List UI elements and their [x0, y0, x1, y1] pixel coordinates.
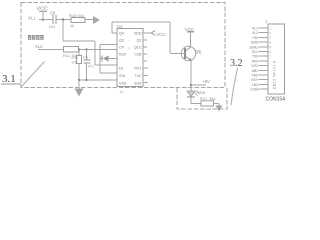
resistor R17: [200, 96, 217, 106]
svg-text:471: 471: [88, 65, 94, 69]
ground arrow (down): [75, 89, 84, 97]
svg-text:+5V: +5V: [202, 79, 210, 84]
svg-text:104: 104: [49, 24, 56, 29]
junction node emitter tap: [190, 84, 193, 87]
svg-text:511: 511: [210, 96, 217, 101]
wire ground rail into U2 pin y80: [80, 79, 118, 81]
svg-text:R12: R12: [72, 56, 79, 60]
svg-text:XL2: XL2: [252, 31, 258, 35]
svg-text:Q3: Q3: [119, 39, 124, 43]
svg-text:VO2: VO2: [251, 64, 258, 68]
wire top rail from U2 pin1: [112, 22, 170, 53]
junction node branch R12: [78, 48, 80, 50]
leader diagonal into box 3.1: [21, 62, 45, 88]
diode VD (to U2 pin y58.5): [100, 56, 117, 62]
svg-text:C8: C8: [83, 56, 88, 60]
svg-text:1u: 1u: [120, 90, 124, 94]
svg-text:3.2: 3.2: [230, 58, 243, 69]
connector XP1 body: [268, 24, 285, 94]
connector pin rows: [249, 27, 258, 92]
svg-text:XL2: XL2: [35, 44, 43, 49]
svg-text:AB1: AB1: [252, 69, 258, 73]
svg-text:TX0: TX0: [252, 55, 258, 59]
svg-text:+5V: +5V: [252, 36, 259, 40]
svg-text:COM: COM: [250, 88, 258, 92]
svg-text:TxC: TxC: [135, 74, 142, 78]
wire C6 to R10: [57, 19, 72, 21]
U2 left pin labels: [119, 32, 127, 86]
svg-text:SCL: SCL: [252, 50, 259, 54]
svg-text:LN2: LN2: [252, 83, 258, 87]
dashed block border 3.2: [177, 88, 227, 109]
svg-text:XL1: XL1: [252, 27, 258, 31]
wire horizontal y41: [63, 40, 95, 42]
connector pin wires: [259, 28, 269, 89]
wire into LED: [190, 87, 192, 91]
connector inner pin numbers: [270, 26, 272, 58]
wire emitter down: [190, 61, 192, 88]
leader line from 3.2: [231, 68, 238, 105]
svg-text:DI: DI: [119, 67, 123, 71]
svg-text:CON15A: CON15A: [266, 97, 287, 103]
svg-text:Q4: Q4: [119, 32, 124, 36]
svg-text:XL1: XL1: [28, 16, 36, 21]
wire into U2 pin y65: [95, 64, 117, 66]
svg-text:DB15 XP101 A: DB15 XP101 A: [273, 60, 277, 89]
svg-text:b: b: [200, 52, 202, 56]
junction node ground rail left: [78, 79, 80, 81]
wire junction to pin row (vertical from node): [62, 20, 64, 42]
leader line under 3.1: [1, 83, 21, 85]
svg-text:1k: 1k: [70, 23, 74, 28]
svg-text:STo: STo: [119, 74, 125, 78]
svg-text:SDA1: SDA1: [249, 45, 258, 49]
svg-text:~: ~: [128, 39, 130, 43]
svg-text:1: 1: [265, 19, 268, 24]
VCC power symbol (top-left): [37, 7, 48, 21]
wire into U2 pin y73: [100, 72, 117, 74]
svg-text:VCC: VCC: [156, 32, 166, 37]
output arrow (down): [218, 104, 220, 106]
wire vertical x100: [99, 45, 101, 74]
capacitor C6: [49, 11, 57, 30]
capacitor C8: [83, 56, 94, 69]
svg-text:SG2: SG2: [134, 82, 141, 86]
label 开关电源 (switching supply): [28, 35, 44, 40]
svg-text:R2X: R2X: [119, 53, 127, 57]
svg-text:KEY: KEY: [251, 78, 258, 82]
svg-text:VD5: VD5: [198, 90, 207, 95]
VCC power symbol (transistor): [185, 27, 195, 47]
svg-text:Q1: Q1: [137, 39, 142, 43]
VCC label right of U2: [143, 32, 152, 34]
junction node branch C8: [85, 48, 87, 50]
svg-text:Q1C: Q1C: [134, 46, 142, 50]
wire vertical x95: [94, 41, 96, 65]
resistor R11: [63, 47, 79, 59]
wire +5V tap: [191, 84, 206, 86]
svg-text:◇: ◇: [128, 46, 131, 50]
svg-text:RX1: RX1: [134, 67, 141, 71]
wire branch R12 vertical: [78, 50, 80, 89]
transistor Q5: [170, 46, 196, 61]
svg-text:C6: C6: [50, 11, 56, 16]
wire XL1 to C6: [39, 19, 53, 21]
svg-text:3.1: 3.1: [2, 73, 16, 85]
junction node ground rail right: [85, 79, 87, 81]
junction node at C6 output: [62, 18, 65, 21]
wire branch C8 vertical: [86, 50, 88, 81]
svg-text:VSS: VSS: [119, 82, 127, 86]
resistor R12: [72, 56, 82, 65]
U2 right pin labels: [134, 32, 142, 86]
U2 right pin stubs: [143, 33, 149, 83]
wire LED to R17: [191, 97, 219, 104]
wire R10 to arrow: [85, 19, 93, 21]
dashed block border 3.1: [21, 3, 225, 88]
svg-text:RX0: RX0: [252, 59, 259, 63]
op IC U2 body: [117, 29, 143, 87]
svg-text:C2B: C2B: [134, 53, 142, 57]
resistor R10: [69, 13, 85, 28]
wire into U2 pin y44.5: [100, 44, 117, 46]
LED VD5: [187, 91, 199, 98]
svg-text:10k: 10k: [72, 61, 78, 65]
U2 middle marks: [128, 39, 131, 51]
svg-text:R17: R17: [200, 96, 208, 101]
signal arrow to right: [93, 16, 100, 24]
wire XL2 into U2: [38, 49, 117, 51]
svg-text:CP: CP: [119, 46, 125, 50]
svg-text:VD0: VD0: [252, 74, 259, 78]
svg-text:GND: GND: [251, 41, 259, 45]
svg-text:VDD: VDD: [134, 32, 142, 36]
